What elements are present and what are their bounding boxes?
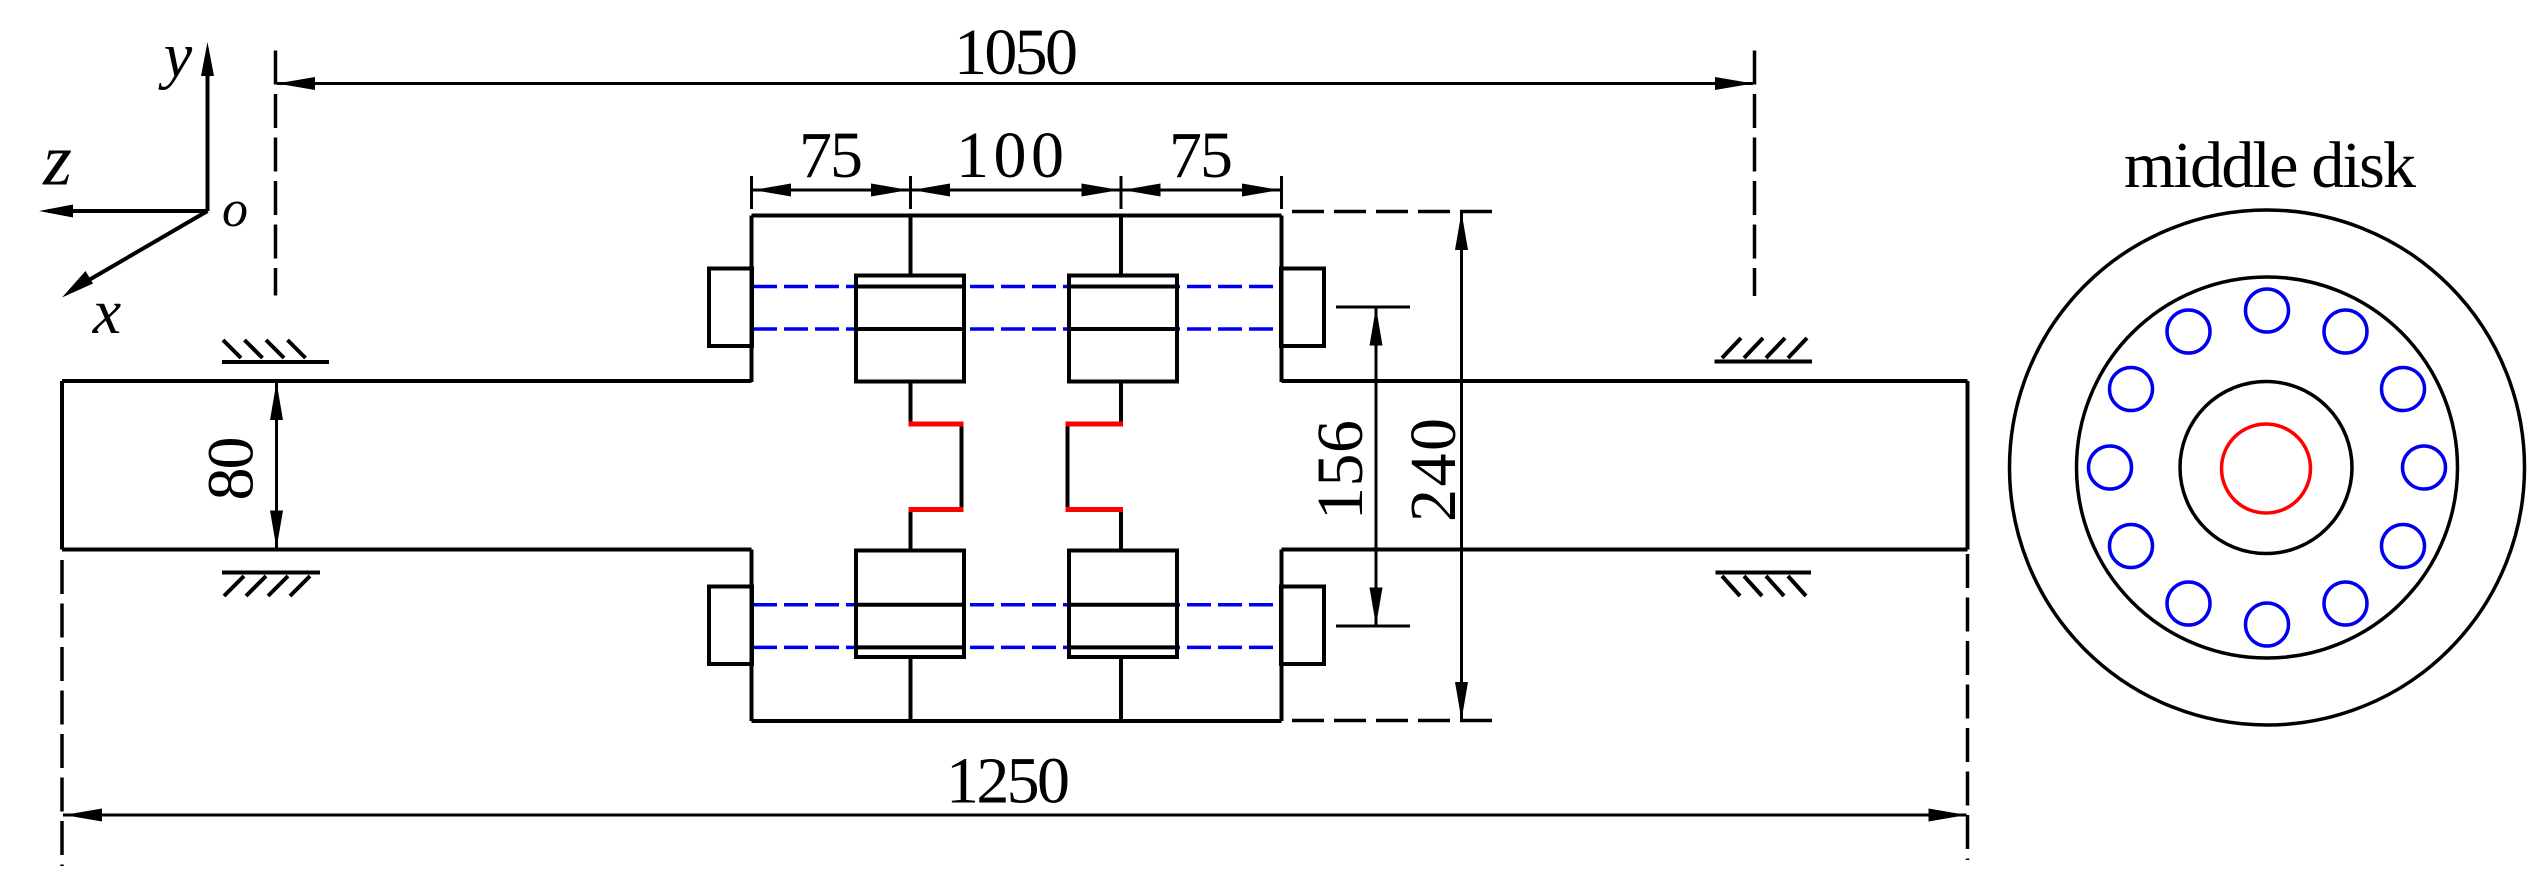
coupling block outline — [752, 216, 1282, 722]
stem lower right — [1119, 657, 1123, 721]
right step red contact lower — [1066, 507, 1124, 512]
svg-text:y: y — [158, 20, 193, 91]
svg-text:100: 100 — [956, 119, 1064, 192]
axis y — [158, 20, 214, 212]
left step black segments — [911, 382, 962, 551]
stem upper right — [1119, 216, 1123, 276]
shaft left segment — [62, 381, 752, 550]
bearing hatch top left — [222, 340, 329, 362]
extension line bottom left (dashed) — [60, 560, 64, 866]
dimension 156 — [1304, 307, 1410, 626]
dimension 80 — [195, 381, 284, 550]
dimension 240 — [1292, 212, 1502, 721]
svg-text:o: o — [222, 181, 248, 238]
right step red contact upper — [1066, 422, 1124, 427]
svg-text:80: 80 — [195, 437, 268, 501]
bearing hatch bottom left — [222, 573, 320, 597]
dimension 1250 — [63, 745, 1967, 822]
bolt tab lower left — [709, 587, 752, 665]
flange box upper left — [856, 276, 964, 382]
svg-text:z: z — [42, 120, 72, 202]
bolt hole circles blue — [2089, 289, 2446, 646]
shaft right segment — [1282, 381, 1968, 550]
extension line left bearing (dashed) — [274, 51, 278, 296]
svg-text:240: 240 — [1397, 418, 1470, 522]
svg-text:1050: 1050 — [954, 16, 1078, 89]
svg-text:156: 156 — [1304, 420, 1377, 520]
stem upper left — [909, 216, 913, 276]
bolt centerline blue dashed row 2 — [753, 327, 1280, 331]
bolt centerline blue dashed row 1 — [753, 285, 1280, 289]
svg-text:75: 75 — [799, 119, 863, 192]
disk outer circle — [2010, 210, 2525, 725]
dimension 1050 — [277, 16, 1753, 90]
bolt centerline blue dashed row 3 — [753, 603, 1280, 607]
disk shaft hole red circle — [2222, 424, 2311, 513]
bolt tab lower right — [1281, 587, 1324, 665]
bolt tab upper left — [709, 269, 752, 347]
stem lower left — [909, 657, 913, 721]
disk hub circle — [2180, 382, 2352, 554]
left step red contact lower — [909, 507, 964, 512]
bolt centerline blue dashed row 4 — [753, 646, 1280, 650]
flange box upper right — [1069, 276, 1177, 382]
flange box lower right — [1069, 551, 1177, 658]
axis z — [39, 120, 208, 218]
svg-text:1250: 1250 — [946, 745, 1070, 818]
bearing hatch bottom right — [1716, 573, 1812, 597]
bolt tab upper right — [1281, 269, 1324, 347]
svg-text:x: x — [92, 276, 121, 347]
right step black segments — [1068, 382, 1122, 551]
extension line right bearing (dashed) — [1753, 51, 1757, 297]
extension line bottom right (dashed) — [1966, 554, 1970, 860]
disk second circle — [2077, 277, 2458, 658]
left step red contact upper — [909, 422, 964, 427]
flange box lower left — [856, 551, 964, 658]
axis x — [62, 211, 208, 347]
bearing hatch top right — [1715, 338, 1813, 362]
svg-text:middle disk: middle disk — [2124, 129, 2416, 202]
dimension 75 100 75 — [752, 119, 1282, 209]
svg-text:75: 75 — [1169, 119, 1233, 192]
